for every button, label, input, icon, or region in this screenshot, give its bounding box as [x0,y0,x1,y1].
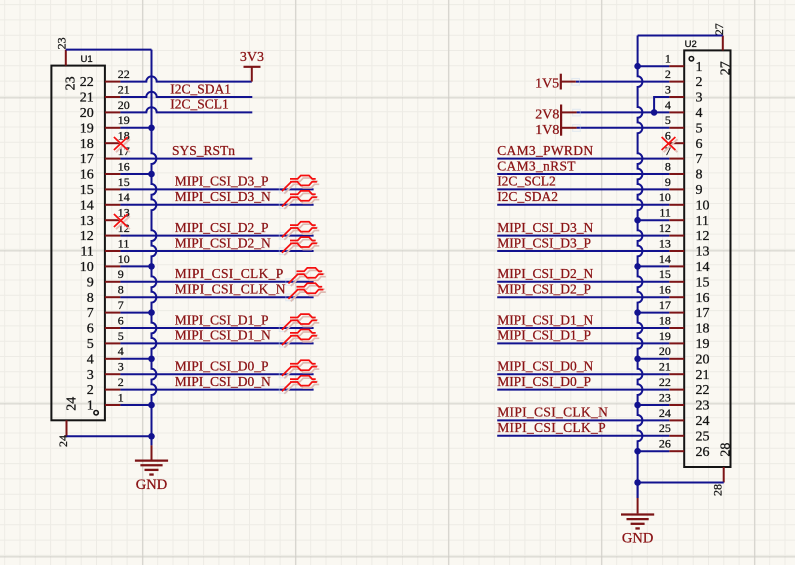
svg-text:2: 2 [118,375,124,389]
svg-text:19: 19 [696,337,710,352]
svg-text:I2C_SCL1: I2C_SCL1 [170,97,229,112]
pin 24 U2 [659,406,710,429]
svg-text:7: 7 [118,298,124,312]
pin 7 U1 [87,298,124,321]
wire SYS_RSTn [120,158,252,160]
wire MIPI D1N U1 [120,342,313,344]
wire pin27 top U2 [638,35,723,37]
svg-text:15: 15 [659,267,671,281]
svg-text:23: 23 [55,37,69,49]
junction pin10 U1 [148,263,155,270]
wire MIPI_CSI_D0_P U2 [497,389,669,391]
svg-text:22: 22 [659,375,671,389]
svg-text:1: 1 [87,399,94,414]
pin 25 U2 [659,421,710,444]
wire I2C_SDA1 [120,92,252,97]
pin 5 U1 [87,329,124,352]
svg-text:23: 23 [659,390,671,404]
svg-text:9: 9 [118,267,124,281]
svg-text:17: 17 [659,298,671,312]
svg-text:24: 24 [659,406,671,420]
wire GND vertical U2 [638,36,643,499]
pin 6 U2 [665,129,703,152]
wire MIPI_CSI_D2_N U2 [497,281,669,283]
svg-text:8: 8 [696,168,703,183]
svg-text:MIPI_CSI_D3_P: MIPI_CSI_D3_P [497,235,591,250]
svg-text:10: 10 [696,198,710,213]
wire MIPI CLKP U1 [120,281,313,283]
svg-text:MIPI_CSI_D0_N: MIPI_CSI_D0_N [175,374,271,389]
svg-text:18: 18 [80,137,94,152]
svg-text:MIPI_CSI_D0_N: MIPI_CSI_D0_N [497,359,593,374]
svg-text:3: 3 [118,360,124,374]
svg-text:11: 11 [80,245,93,260]
pin 18 U1 [80,129,130,152]
svg-text:1: 1 [696,60,703,75]
svg-text:2: 2 [665,67,671,81]
junction pin23 U2 [634,402,641,409]
svg-text:27: 27 [712,23,726,35]
pin 16 U1 [80,159,130,182]
svg-text:23: 23 [63,76,78,90]
svg-text:3: 3 [696,91,703,106]
svg-text:11: 11 [118,236,130,250]
svg-text:21: 21 [696,368,710,383]
wire GND vertical U1 [66,50,157,437]
svg-text:3V3: 3V3 [240,50,264,65]
svg-text:11: 11 [696,214,709,229]
diff pair directive MIPI_CSI_D0_P [279,360,319,378]
pin 8 U2 [665,159,703,182]
svg-text:17: 17 [696,306,710,321]
svg-text:19: 19 [118,113,130,127]
pin 11 U1 [80,236,129,259]
svg-text:5: 5 [87,337,94,352]
pin 26 U2 [659,437,710,460]
pin 23 U1 [55,37,79,90]
pin 7 U2 [665,144,703,167]
power port 1V5 [535,74,576,92]
svg-text:24: 24 [696,414,710,429]
pin 1 U2 [665,52,703,75]
pin 24 U1 [56,397,80,447]
junction GND corner U1 [148,433,155,440]
pin 3 U2 [665,82,703,105]
pin 12 U2 [659,221,710,244]
junction pin28 net U2 [634,479,641,486]
pin 18 U2 [659,313,710,336]
pin 1 U1 [87,390,124,413]
wire pin23 to GND net U2 [638,404,670,406]
svg-text:MIPI_CSI_CLK_P: MIPI_CSI_CLK_P [175,266,284,281]
wire pin4 to GND net U1 [120,358,151,360]
wire I2C_SCL1 [120,107,252,112]
wire pin1 to GND net U1 [120,404,151,406]
wire 1V5 U2 [576,81,670,83]
svg-text:3: 3 [665,82,671,96]
svg-text:I2C_SDA1: I2C_SDA1 [170,81,231,96]
svg-text:19: 19 [659,329,671,343]
svg-text:21: 21 [80,91,94,106]
svg-text:10: 10 [659,190,671,204]
wire MIPI D1P U1 [120,327,313,329]
pin 4 U2 [665,98,703,121]
svg-text:22: 22 [696,383,710,398]
pin 17 U2 [659,298,710,321]
wire MIPI D0P U1 [120,373,313,375]
pin 21 U2 [659,360,710,383]
wire 1V8 U2 [577,127,670,129]
wire CAM3_PWRDN U2 [497,158,669,160]
svg-text:I2C_SCL2: I2C_SCL2 [497,174,556,189]
svg-text:MIPI_CSI_D2_P: MIPI_CSI_D2_P [497,282,591,297]
svg-text:16: 16 [118,159,130,173]
svg-text:4: 4 [665,98,671,112]
connector U2 body [684,50,730,467]
svg-text:26: 26 [696,445,710,460]
svg-text:27: 27 [719,61,734,75]
junction pin19 U1 [148,125,155,132]
svg-text:25: 25 [659,421,671,435]
pin 10 U2 [659,190,710,213]
wire CAM3_nRST U2 [497,173,669,175]
power port 3V3 [240,50,264,82]
svg-text:20: 20 [696,352,710,367]
wire MIPI D0N U1 [120,389,313,391]
wire I2C_SCL2 U2 [497,188,669,190]
wire MIPI_CSI_D3_N U2 [497,235,669,237]
svg-text:MIPI_CSI_D3_P: MIPI_CSI_D3_P [175,174,269,189]
svg-text:8: 8 [87,291,94,306]
svg-text:26: 26 [659,437,671,451]
pin 5 U2 [665,113,703,136]
wire MIPI D2N U1 [120,250,313,252]
svg-text:20: 20 [80,106,94,121]
svg-text:14: 14 [696,260,710,275]
wire pin3 jumper U2 [654,97,669,112]
pin 15 U2 [659,267,710,290]
diff pair directive MIPI_CSI_CLK_P [286,268,326,286]
svg-text:10: 10 [80,260,94,275]
svg-text:14: 14 [659,252,671,266]
pin 3 U1 [87,360,124,383]
svg-text:9: 9 [696,183,703,198]
wire pin14 to GND net U2 [638,265,670,267]
no-ERC marker pin6 U2 [662,137,678,152]
svg-text:1: 1 [118,390,124,404]
svg-text:23: 23 [696,399,710,414]
pin 8 U1 [87,283,124,306]
pin 16 U2 [659,283,710,306]
pin 14 U1 [80,190,130,213]
junction pin4 U1 [148,356,155,363]
svg-text:MIPI_CSI_D3_N: MIPI_CSI_D3_N [497,220,593,235]
pin 11 U2 [659,206,709,229]
svg-text:19: 19 [80,121,94,136]
svg-text:21: 21 [118,82,130,96]
svg-text:10: 10 [118,252,130,266]
svg-text:12: 12 [80,229,94,244]
junction pin11 U2 [634,217,641,224]
svg-text:22: 22 [80,75,94,90]
svg-text:7: 7 [696,152,703,167]
svg-text:4: 4 [118,344,124,358]
svg-text:16: 16 [80,168,94,183]
svg-text:4: 4 [87,352,94,367]
svg-text:18: 18 [696,322,710,337]
wire pin24 to GND net U1 [67,435,152,437]
svg-text:16: 16 [659,283,671,297]
diff pair directive MIPI_CSI_D3_P [279,176,319,194]
svg-text:MIPI_CSI_D1_P: MIPI_CSI_D1_P [175,312,269,327]
junction pin26 U2 [634,448,641,455]
svg-text:MIPI_CSI_D1_N: MIPI_CSI_D1_N [175,328,271,343]
wire 2V8 U2 [577,111,670,113]
svg-text:MIPI_CSI_D3_N: MIPI_CSI_D3_N [175,189,271,204]
pin 20 U1 [80,98,130,121]
wire pin11 to GND net U2 [638,219,670,221]
junction pin20 U2 [634,356,641,363]
svg-text:13: 13 [696,245,710,260]
pin 6 U1 [87,313,124,336]
wire MIPI CLKN U1 [120,296,313,298]
svg-text:20: 20 [118,98,130,112]
wire MIPI_CSI_D1_N U2 [497,327,669,329]
svg-text:17: 17 [80,152,94,167]
pin 19 U1 [80,113,130,136]
wire MIPI_CSI_D0_N U2 [497,373,669,375]
pin 9 U1 [87,267,124,290]
pin 13 U2 [659,236,710,259]
svg-text:14: 14 [80,198,94,213]
svg-text:25: 25 [696,429,710,444]
svg-text:8: 8 [665,159,671,173]
ground GND U1 [135,436,168,493]
diff pair directive MIPI_CSI_D1_N [279,330,319,348]
svg-text:MIPI_CSI_CLK_N: MIPI_CSI_CLK_N [497,405,608,420]
pin 13 U1 [80,206,130,229]
pin 12 U1 [80,221,130,244]
svg-text:MIPI_CSI_D2_N: MIPI_CSI_D2_N [175,235,271,250]
svg-text:18: 18 [659,313,671,327]
wire MIPI_CSI_D2_P U2 [497,296,669,298]
junction pin1 U1 [148,402,155,409]
pin 21 U1 [80,82,130,105]
svg-text:MIPI_CSI_D0_P: MIPI_CSI_D0_P [175,359,269,374]
diff pair directive MIPI_CSI_D2_N [279,237,319,255]
svg-text:11: 11 [659,206,671,220]
wire pin26 to GND net U2 [638,450,670,452]
diff pair directive MIPI_CSI_D3_N [279,191,319,209]
wire MIPI D3N U1 [120,204,313,206]
pin 28 U2 [711,443,734,496]
junction pin17 U2 [634,309,641,316]
pin 23 U2 [659,390,710,413]
wire MIPI_CSI_CLK_P U2 [497,435,669,437]
svg-text:GND: GND [622,531,653,547]
pin 2 U1 [87,375,124,398]
svg-text:MIPI_CSI_D1_N: MIPI_CSI_D1_N [497,312,593,327]
svg-text:1V5: 1V5 [535,77,559,92]
junction pin14 U2 [634,263,641,270]
svg-text:6: 6 [118,313,124,327]
svg-text:13: 13 [659,236,671,250]
svg-text:CAM3_PWRDN: CAM3_PWRDN [497,143,593,158]
svg-text:12: 12 [659,221,671,235]
wire pin17 to GND net U2 [638,312,670,314]
svg-text:7: 7 [87,306,94,321]
junction pin7 U1 [148,309,155,316]
svg-text:14: 14 [118,190,130,204]
pin 22 U2 [659,375,710,398]
wire MIPI D3P U1 [120,188,313,190]
diff pair directive MIPI_CSI_D0_N [279,376,319,394]
pin 2 U2 [665,67,703,90]
pin 27 U2 [712,23,734,75]
svg-text:15: 15 [696,275,710,290]
svg-text:MIPI_CSI_D2_N: MIPI_CSI_D2_N [497,266,593,281]
svg-text:20: 20 [659,344,671,358]
svg-text:5: 5 [665,113,671,127]
wire pin7 to GND net U1 [120,312,151,314]
wire MIPI_CSI_D1_P U2 [497,342,669,344]
pin 10 U1 [80,252,130,275]
svg-text:MIPI_CSI_CLK_N: MIPI_CSI_CLK_N [175,282,286,297]
svg-text:28: 28 [711,484,725,496]
svg-text:I2C_SDA2: I2C_SDA2 [497,189,558,204]
ground GND U2 [621,483,654,547]
svg-text:GND: GND [136,477,167,493]
power port 1V8 [535,120,576,138]
svg-text:SYS_RSTn: SYS_RSTn [172,143,235,158]
pin 22 U1 [80,67,130,90]
svg-text:MIPI_CSI_D1_P: MIPI_CSI_D1_P [497,328,591,343]
pin 19 U2 [659,329,710,352]
svg-text:6: 6 [696,137,703,152]
svg-text:MIPI_CSI_CLK_P: MIPI_CSI_CLK_P [497,420,606,435]
svg-text:CAM3_nRST: CAM3_nRST [497,158,576,173]
junction pin3-pin4 U2 [651,109,658,116]
svg-text:2: 2 [696,75,703,90]
svg-text:1: 1 [665,52,671,66]
svg-text:U1: U1 [81,54,93,65]
svg-text:6: 6 [87,322,94,337]
junction pin1 U2 [634,63,641,70]
svg-text:5: 5 [696,121,703,136]
wire MIPI_CSI_CLK_N U2 [497,419,669,421]
pin 17 U1 [80,144,130,167]
wire pin16 to GND net U1 [120,173,151,175]
svg-text:4: 4 [696,106,703,121]
svg-text:16: 16 [696,291,710,306]
svg-text:15: 15 [118,175,130,189]
svg-text:U2: U2 [685,39,697,50]
diff pair directive MIPI_CSI_CLK_N [286,283,326,301]
no-ERC marker pin13 U1 [114,214,130,229]
svg-text:MIPI_CSI_D0_P: MIPI_CSI_D0_P [497,374,591,389]
svg-text:3: 3 [87,368,94,383]
pin 4 U1 [87,344,124,367]
no-ERC marker pin18 U1 [114,137,130,152]
svg-text:28: 28 [719,443,734,457]
wire MIPI D2P U1 [120,235,313,237]
svg-text:2V8: 2V8 [535,107,559,122]
svg-text:MIPI_CSI_D2_P: MIPI_CSI_D2_P [175,220,269,235]
svg-text:13: 13 [80,214,94,229]
svg-text:9: 9 [665,175,671,189]
wire pin10 to GND net U1 [120,265,151,267]
diff pair directive MIPI_CSI_D2_P [279,222,319,240]
wire pin1 to GND net U2 [638,65,670,67]
svg-text:9: 9 [87,275,94,290]
svg-text:8: 8 [118,283,124,297]
diff pair directive MIPI_CSI_D1_P [279,314,319,332]
power port 2V8 [535,105,576,123]
pin 1 marker circle U2 [689,57,693,61]
wire pin22 to 3V3 [120,76,251,81]
pin 15 U1 [80,175,130,198]
svg-text:2: 2 [87,383,94,398]
connector U1 body [51,66,105,421]
svg-text:12: 12 [696,229,710,244]
svg-text:5: 5 [118,329,124,343]
wire pin20 to GND net U2 [638,358,670,360]
pin 14 U2 [659,252,710,275]
svg-text:21: 21 [659,360,671,374]
svg-text:22: 22 [118,67,130,81]
wire MIPI_CSI_D3_P U2 [497,250,669,252]
wire pin19 to GND net U1 [120,127,151,129]
wire pin28 bottom U2 [638,482,724,484]
junction pin16 U1 [148,171,155,178]
wire I2C_SDA2 U2 [497,204,669,206]
pin 20 U2 [659,344,710,367]
pin 1 marker circle U1 [94,411,98,415]
svg-text:24: 24 [64,397,79,411]
svg-text:1V8: 1V8 [535,123,559,138]
pin 9 U2 [665,175,703,198]
svg-text:15: 15 [80,183,94,198]
